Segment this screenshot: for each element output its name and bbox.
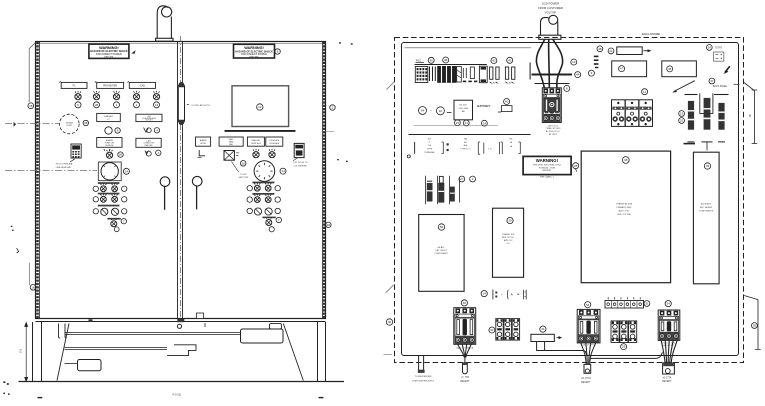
svg-text:48: 48 [444,58,448,62]
push button alarm [106,149,112,158]
svg-text:LIGHT: LIGHT [66,125,73,127]
PLC label [416,59,424,63]
push button cab light [105,127,112,134]
fuse rail [685,94,729,96]
svg-text:14: 14 [281,169,285,173]
keypad leader [70,159,75,162]
relay pair B [505,67,515,83]
svg-text:31: 31 [645,302,649,306]
svg-text:LIGHTS AT RECEPTS: LIGHTS AT RECEPTS [412,379,434,382]
ref bubble 9 [588,70,594,76]
svg-text:38: 38 [84,121,88,125]
incoming feeder wires [536,39,562,88]
pushbutton pair [100,194,106,203]
nameplate CAB group [129,82,155,88]
pilot light R4 [269,149,275,158]
nameplate R2 [219,137,243,146]
wires CB3 to receptacle [661,340,677,363]
fuse F1 [688,101,694,130]
svg-text:TSTAT: TSTAT [715,47,723,50]
svg-text:REF LABEL 1: REF LABEL 1 [540,176,554,179]
nameplate R1 [196,137,211,146]
surge arrester SA3 [450,187,455,202]
ref bubble 40cb [461,300,467,306]
svg-text:37: 37 [710,79,714,83]
nameplate lag pump [136,138,161,147]
upper right dimension [744,83,757,144]
spare rail stub [684,143,696,145]
stand rail 2 [65,348,168,350]
svg-text:HORN: HORN [200,143,206,145]
ref bubble 47 [619,66,625,72]
breaker CB3 [658,310,680,340]
ref bubble 26 [118,152,123,157]
svg-text:38: 38 [624,158,628,162]
svg-text:19: 19 [680,112,684,116]
svg-text:LEVEL ALM: LEVEL ALM [251,142,261,145]
ref bubble 38 [622,157,629,164]
main breaker CB-M [542,88,561,123]
indicator feed stub [419,356,424,372]
ref bubble R7 [276,217,281,222]
svg-text:TRIAD 3POS20: TRIAD 3POS20 [546,127,562,130]
stand bracket 2 [167,345,196,356]
left door warning label [89,44,129,58]
svg-text:36: 36 [95,103,99,107]
svg-text:APR CLP B.L: APR CLP B.L [502,236,515,239]
bottom left leader line [28,263,30,285]
fuse F2 [704,98,711,130]
window cutout on right door [232,86,289,127]
pushbutton pair R [254,183,260,192]
PLC power module [415,67,428,83]
svg-text:26: 26 [119,153,123,157]
svg-text:LINE REMOVAL: LINE REMOVAL [56,166,72,169]
terminal strip 31 [605,297,644,308]
stand junction box 1 [241,329,284,343]
din rail under busbar [535,83,570,85]
svg-text:18: 18 [29,104,33,108]
svg-text:62: 62 [490,328,494,332]
left margin tick marks [11,226,19,253]
busbar [532,74,573,76]
legend row 2 marks [493,290,526,300]
svg-text:COMPONENT: COMPONENT [434,253,448,255]
ref bubble 44 [575,72,581,78]
fuse F3 [718,103,724,130]
battery shelf line [414,125,498,127]
svg-text:SEC TALKER: SEC TALKER [700,206,713,209]
svg-text:FAILURE: FAILURE [145,144,154,147]
run1 drop to R2 [583,351,587,356]
pilot light 3 [113,91,119,100]
bottom wire run 2 [591,352,663,358]
ref bubble 4 [154,128,159,133]
receptacle R0 [418,370,425,373]
pilot light 4 [133,91,139,100]
stand rail 3 [65,363,78,365]
svg-text:44: 44 [576,73,580,77]
width dimension ticks [38,397,324,399]
pilot light 5 [153,91,159,100]
contactor 29 [611,321,637,343]
wires CB1 to receptacle [458,344,472,363]
auxiliary box 33 [693,152,719,284]
svg-text:23: 23 [456,121,460,125]
nameplate arrow [644,49,652,52]
elapsed time meter square [98,162,121,181]
svg-text:TYPE 12 C: TYPE 12 C [460,149,471,151]
nameplate P1 group [61,82,87,88]
stand right leg [318,322,326,382]
bottom pushbutton R [262,217,275,219]
ref bubble 48p [443,57,449,63]
auxiliary box 33 note [699,203,714,213]
svg-text:APR CLP: APR CLP [504,239,513,242]
right view: enclosure interior layout [384,2,761,384]
svg-text:FL7M400L - RUN: FL7M400L - RUN [539,167,556,169]
svg-text:1 /\(: 1 /\( [488,149,492,151]
pilot light R3 [253,149,259,158]
svg-text:12: 12 [258,105,262,109]
svg-text:DPL DOOR TD: DPL DOOR TD [294,162,309,164]
enclosure dashed border [395,38,744,363]
svg-text:WARNING!: WARNING! [536,158,559,163]
pilot light 2 [93,91,99,100]
svg-text:~: ~ [430,109,432,113]
svg-text:3'-0: 3'-0 [20,348,23,353]
push button lag [145,151,151,157]
svg-text:OUTLET: OUTLET [145,120,153,122]
svg-text:BATTERY: BATTERY [477,104,491,108]
svg-text:PLC: PLC [416,59,421,63]
ground line [19,381,345,383]
component box 29t [493,208,524,277]
ref bubble 54b [665,301,671,307]
svg-text:16: 16 [31,285,35,289]
svg-text:11: 11 [643,90,646,94]
stand right diagonal brace [283,324,303,381]
component box 50 note [434,246,448,255]
svg-text:16: 16 [242,161,246,165]
surge arrester rails [425,176,459,205]
ref bubble 14R [280,168,286,174]
svg-text:CAB: CAB [140,84,145,87]
ref bubble 62 [489,327,495,333]
svg-text:AUF CLP 30A: AUF CLP 30A [617,213,631,216]
main breaker note [546,124,562,135]
hold open note [56,163,73,169]
receptacle R2 note [581,378,591,384]
ref bubble 29c [621,344,627,350]
svg-text:DOOR LATCH PLT: DOOR LATCH PLT [192,104,211,107]
ref bubble 8 [275,49,280,54]
right door hinge strip [323,42,325,319]
ref bubble 19 [679,111,685,117]
ref bubble 29t [507,217,513,223]
pointer arrow A [723,66,730,74]
lower right dimension [744,296,761,350]
warning label flag marker [131,50,135,54]
relay pair A [490,67,499,83]
svg-text:T-APT: T-APT [491,81,497,84]
ref bubble 31 [644,301,650,307]
tstat box [714,52,724,61]
PLC io cards dark block [437,66,456,83]
duct drop wires [537,342,545,351]
keypad display device [71,144,81,158]
svg-text:24: 24 [483,121,487,125]
height dimension line [25,323,28,382]
receptacle R1 [463,362,468,373]
svg-text:34: 34 [708,46,712,50]
svg-text:SCD POWER: SCD POWER [542,2,559,6]
ref bubble 27b [470,176,476,182]
ref bubble small [114,227,119,232]
selector row [93,208,127,215]
door handle note [187,104,190,105]
left side ref bubble 18 [28,103,34,109]
svg-text:LEVEL ALM: LEVEL ALM [269,139,279,142]
ref bubble 21 [463,120,469,126]
centerline upper [5,122,59,124]
left wall leader lower [386,285,394,293]
lower right dimension bubble [752,323,758,329]
ref bubble 1 [114,102,120,108]
stand junction box 1 stub [270,324,282,329]
scada conduit [539,15,561,39]
svg-text:TRANSF 1PE: TRANSF 1PE [502,233,515,236]
svg-text:30: 30 [388,320,392,324]
intercom device under R2 [224,151,239,161]
selector row R [247,208,280,215]
svg-text:25: 25 [680,119,684,123]
door latch bar [178,82,184,125]
svg-text:GE ATL: GE ATL [437,246,445,249]
centerline lower [5,169,97,171]
svg-text:40: 40 [505,100,509,104]
right door handle [192,176,202,209]
ref bubble 23 [455,120,461,126]
svg-text:54: 54 [586,303,590,307]
svg-text:13: 13 [155,103,159,107]
svg-text:35: 35 [753,324,757,328]
svg-text:COMPONENTS: COMPONENTS [699,211,714,213]
svg-text:18: 18 [327,223,331,227]
terminal block assembly [612,100,653,127]
PLC spare slots [463,67,474,79]
legend row 2 bubble 14 [481,291,487,297]
terminal block 62 [496,319,520,341]
svg-text:FROM CUSTOMER: FROM CUSTOMER [538,6,563,10]
svg-text:PROHEATER: PROHEATER [103,84,117,87]
centerline arrow tick [14,122,16,127]
svg-text:RECEPT: RECEPT [662,381,672,383]
cabinet outline [36,42,326,322]
PLC rack rail [415,64,487,66]
nameplate strip [617,47,642,55]
legend note bubble [407,155,410,158]
svg-text:SILENCE: SILENCE [105,145,114,147]
indicator note [412,375,434,382]
svg-text:27: 27 [460,177,464,181]
component box 29t note [502,233,515,245]
svg-text:40: 40 [463,301,467,305]
divider bottom block [177,319,184,322]
ref bubble 11 [642,89,648,95]
ref bubble 16 base [30,285,36,291]
svg-text:VDC 4HS: VDC 4HS [458,108,468,110]
door switch device [294,143,304,157]
svg-text:41: 41 [609,49,613,53]
ref bubble [75,102,81,108]
ref bubble 7 [121,219,126,224]
panel top shelf line [405,47,532,49]
svg-text:43: 43 [508,58,512,62]
svg-text:AT UNIT: AT UNIT [549,133,558,136]
svg-text:46: 46 [668,67,672,71]
breaker CB1 [454,308,476,345]
wire duct 41 [531,334,554,341]
ref bubble 8b [564,85,570,91]
svg-text:SETPOINT: SETPOINT [238,177,249,179]
svg-text:CAT V DOL: CAT V DOL [548,124,560,127]
svg-text:21: 21 [465,121,469,125]
scada power note [538,2,563,15]
PLC bottom marks [463,81,478,83]
svg-text:R8P3PNT: R8P3PNT [542,170,552,172]
pushbutton cluster left door [93,182,127,206]
svg-text:33: 33 [706,164,710,168]
ref bubble 16b [436,107,444,115]
duct arrow [557,336,563,339]
fuse bracket [700,93,713,113]
signal hole dashed circle [60,114,80,134]
svg-text:BEFORE: BEFORE [250,56,260,58]
component box 50 [419,215,464,292]
surge arrester SA2 [438,176,444,202]
ref bubble 50 [438,224,444,230]
nameplate alarm silence [97,138,122,148]
center divider between doors [178,36,183,321]
svg-text:TO DUT: TO DUT [240,174,248,176]
svg-text:+D 17TA: +D 17TA [662,376,671,379]
stand left diagonal brace [57,324,69,381]
svg-text:AvE: AvE [464,144,468,147]
stand junction box 3 [78,360,102,371]
ref bubble 37 [709,78,715,84]
ref bubble 12 [257,104,263,110]
nameplate GFI outlet [136,114,162,121]
ref bubble 13 [154,102,160,108]
ref bubble 36 [94,102,100,108]
svg-text:ENCLOSURE: ENCLOSURE [642,32,660,36]
ref bubble 14 [123,168,129,174]
bracket symbol under R1 [198,150,206,157]
wires CB2 to receptacle [581,343,596,365]
nameplate PROHEATER group [97,82,124,88]
svg-text:36: 36 [430,58,434,62]
legend rule [409,134,531,136]
comb marks [594,56,599,69]
svg-text:+D 17TM: +D 17TM [581,378,591,380]
svg-text:LOA1 (TL 3TK): LOA1 (TL 3TK) [582,344,595,347]
svg-text:A·: A· [511,292,514,296]
ref bubble 1b [134,102,140,108]
fuse base ticks [688,142,726,151]
back panel border [402,43,739,356]
left view: cabinet front elevation [3,6,352,398]
ref bubble 54a [585,302,591,308]
right side tick line [326,131,335,133]
ref bubble 40b [504,99,510,105]
svg-text:TRANSF AT KVA: TRANSF AT KVA [616,203,632,206]
ref bubble 33 [704,163,710,169]
ref bubble 43p [507,57,513,63]
pushbutton pair R [254,194,260,203]
svg-text:50: 50 [440,225,444,229]
svg-text:TO INDICATORS: TO INDICATORS [415,375,432,378]
ref bubble 16R [240,161,246,167]
breaker CB2 [577,309,600,343]
left door hinge strip [38,42,40,319]
grade marks [3,381,9,394]
stand center bolt [177,324,181,328]
svg-text:BEFORE: BEFORE [104,56,114,58]
right side tick marks [337,42,352,162]
transformer box 38 [581,151,670,283]
blank plate 2 [662,61,697,77]
pilot light 1 [75,91,81,100]
nameplate R3 [247,137,264,146]
svg-text:41: 41 [541,327,545,331]
nameplate R4 [266,137,283,146]
ref bubble 27a [459,176,465,182]
svg-text:+T. 7TR: +T. 7TR [461,377,469,379]
top left fold line [29,43,35,103]
stand left leg [33,322,42,382]
ref bubble R small [269,227,274,232]
surge arrester SA1 [427,181,433,201]
svg-text:48: 48 [598,47,602,51]
conduit stub on cabinet top [156,6,173,41]
left wall tick [384,354,393,356]
svg-text:13: 13 [572,60,576,64]
svg-text:AL 3POST LLC: AL 3POST LLC [546,130,561,133]
rail end bar [529,63,531,80]
receptacle R3 note [662,376,672,383]
svg-text:AUX L.P 5T: AUX L.P 5T [619,210,631,213]
ref bubble 48n [597,46,603,52]
svg-text:1of: 1of [428,145,431,147]
svg-text:64: 64 [421,109,425,113]
svg-text:FAIL: FAIL [229,143,233,146]
ref bubble 28 [573,163,579,169]
svg-text:47: 47 [620,67,624,71]
svg-text:RECEPT: RECEPT [460,381,470,383]
stand rail 1 [65,333,241,335]
ref bubble 41n [608,48,614,54]
blank plate 1 [612,61,647,77]
svg-text:VOLT RF: VOLT RF [545,11,557,15]
ref bubble 36p [428,57,434,63]
battery [454,100,473,120]
ref bubble 42p [491,58,497,64]
main breaker dark body [544,98,560,112]
svg-text:TYPE: TYPE [427,149,433,151]
ref bubble 18 right [326,222,331,227]
svg-text:4'-0 SQ: 4'-0 SQ [172,393,181,397]
